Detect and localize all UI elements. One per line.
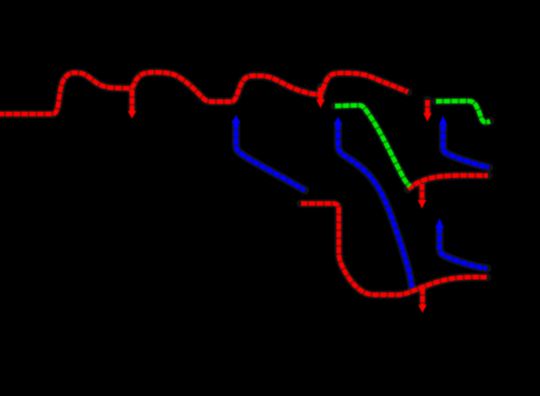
red down-arrow below red curve 2 at x=422.5 — [418, 288, 426, 313]
red curve 3: rising plateau (408,189)-(488,175) — [408, 175, 488, 189]
red down-arrow at first valley x=132 — [128, 90, 136, 119]
red curve 1: long top contour from left edge — [0, 72, 408, 114]
red down-arrow below red curve 3 at x=422 — [418, 184, 426, 209]
green curve 2: plateau (436,101) then hook down to (490,121) — [436, 101, 490, 122]
green curve 1: plateau (335,106) then steep diagonal to (410,186) — [335, 105, 410, 186]
blue arrow-curve 3: up arrow (443,115), shallow diagonal to (489,167) — [439, 116, 489, 168]
halo glow for all strokes — [0, 72, 490, 305]
red curve 2: corner at (338,203), bowl, rise to (487,277) — [301, 204, 487, 295]
red down-arrow at end of red curve 1, x=427.5 — [423, 100, 431, 122]
blue arrow-curve 4: up arrow (439.5,218), diagonal to (487,268) — [435, 218, 487, 269]
blue arrow-curve 1: up arrow (236,115), diagonal to (305,190) — [232, 115, 305, 190]
red down-arrow at second valley x=320.5 — [316, 88, 324, 109]
blue arrow-curve 2: up arrow (338,117), steepening diagonal to (412,288) — [334, 117, 412, 288]
